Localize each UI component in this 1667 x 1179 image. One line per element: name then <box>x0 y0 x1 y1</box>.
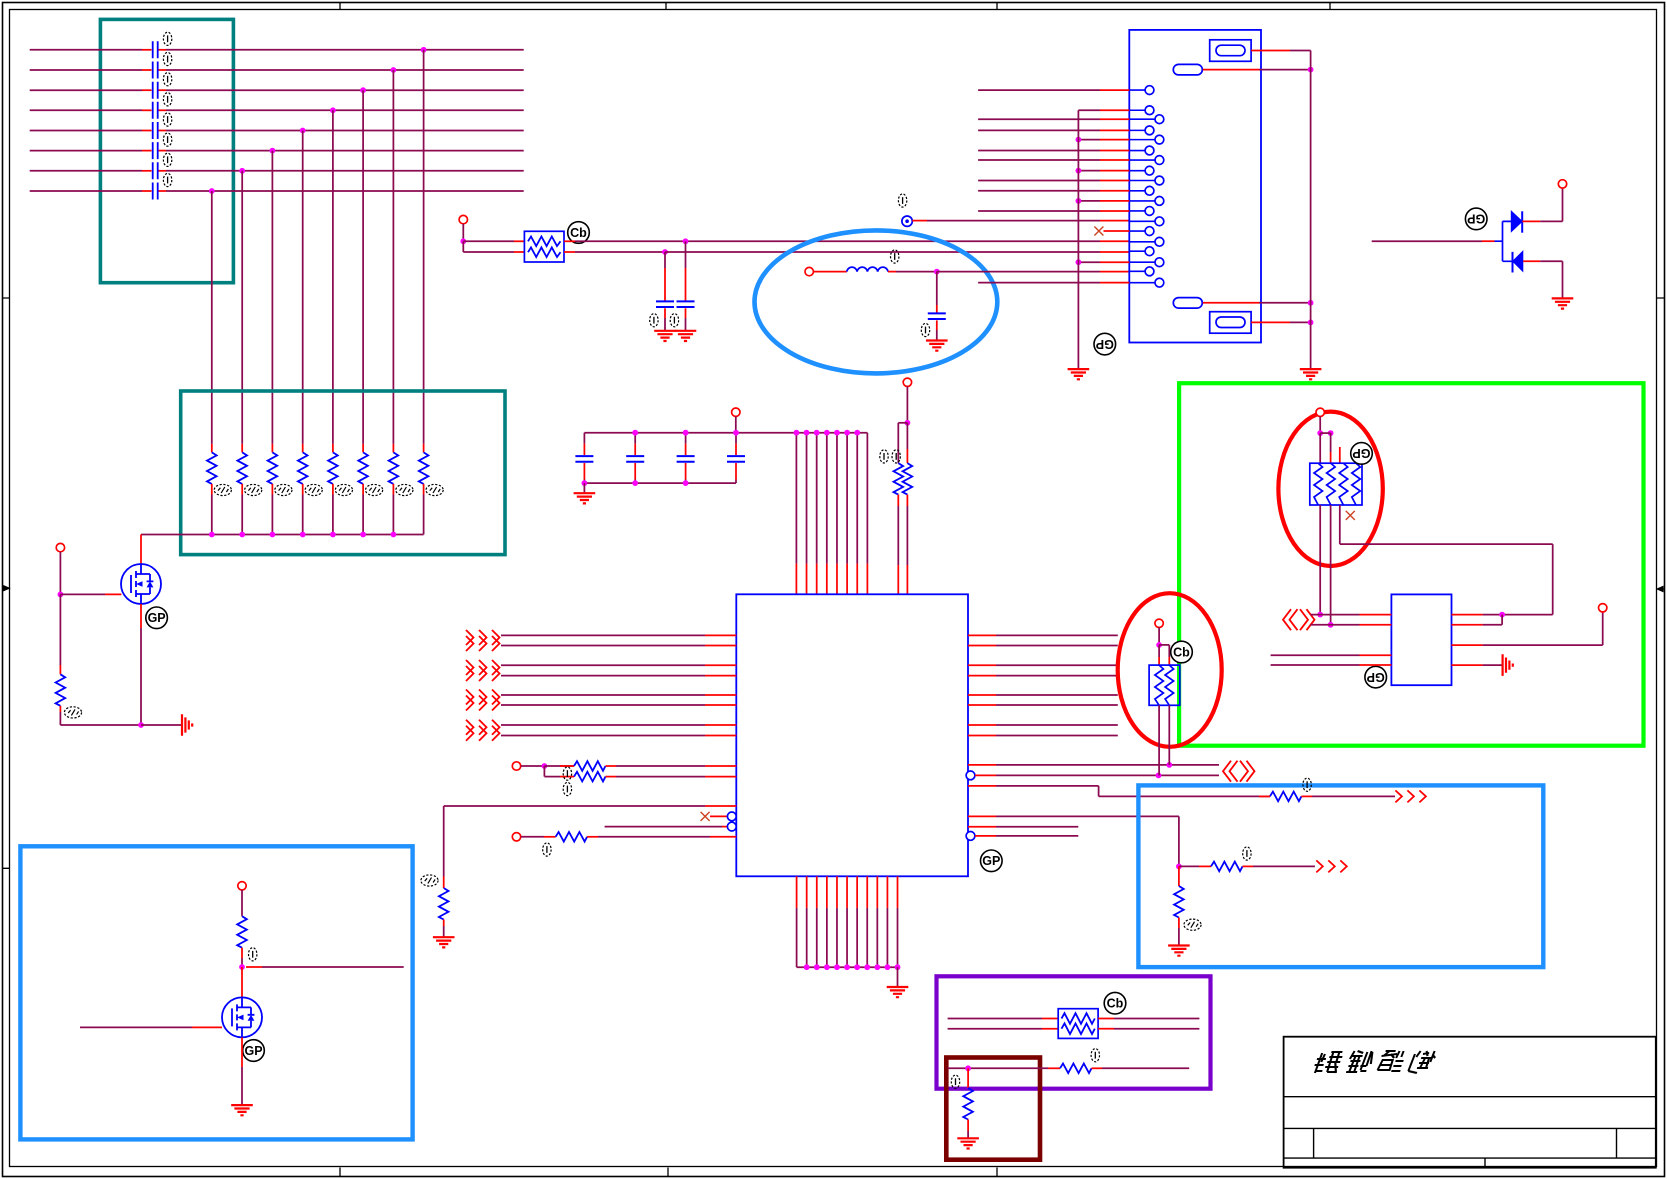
svg-text:Cb: Cb <box>1107 997 1124 1011</box>
capacitor C4 <box>153 102 158 119</box>
junction node top bus bundle <box>834 430 840 436</box>
wire vertical drop col 2 <box>241 171 243 444</box>
junction node bottom bus <box>864 964 870 970</box>
transistor Q1 (N-MOSFET) <box>121 564 161 604</box>
ground (R18) <box>1168 946 1190 956</box>
wire RN2 out 2 <box>1168 705 1170 765</box>
annotation ellipse (blue) EMI filter <box>755 230 998 373</box>
annotation ellipse (red) pack area <box>1278 412 1382 566</box>
connector pin 6 <box>1129 146 1154 155</box>
wire U2 out row1 <box>1452 614 1553 616</box>
reference label Cb (RP1) <box>568 222 590 244</box>
junction node top bus bundle <box>794 430 800 436</box>
svg-text:GP: GP <box>982 854 1000 868</box>
junction node top bus bundle <box>844 430 850 436</box>
wire U1 bottom bundle 4 <box>826 876 828 967</box>
wire long row corner <box>443 806 445 877</box>
mount pad frame bottom <box>1210 312 1251 334</box>
wire vertical drop col 3 <box>271 151 273 444</box>
junction node row 8 <box>209 188 215 194</box>
wire vertical drop col 6 <box>362 90 364 444</box>
annotation box (green) <box>1179 383 1643 746</box>
wire to second resistor <box>898 423 907 463</box>
reference label Cb (RP2) <box>1104 992 1126 1014</box>
designator label C15 <box>650 314 658 327</box>
wire U2 in row1 <box>1311 614 1392 616</box>
capacitor C11 (decoupling) <box>575 433 593 483</box>
connector pin 8 <box>1129 166 1154 175</box>
wire U1 bottom bundle 2 <box>806 876 808 967</box>
wire branch down <box>544 766 560 777</box>
wire IC top bundle 5 <box>836 433 838 595</box>
wire decoupling top bus <box>584 432 867 434</box>
wire IC top bundle 7 <box>856 433 858 595</box>
shield tab bottom <box>1173 298 1202 309</box>
wire connector net (long) <box>978 190 1129 192</box>
wire vertical drop col 7 <box>392 70 394 444</box>
pin circle U1 right 1 <box>966 771 975 780</box>
junction node bottom bus <box>895 964 901 970</box>
connector pin 12 <box>1129 207 1154 216</box>
wire net row 3 <box>30 89 524 91</box>
wire TP1 to pin <box>912 220 1129 222</box>
wire U2 ground row <box>1452 664 1502 666</box>
wire pbox row2 stub <box>1042 1028 1058 1030</box>
designator label R1 <box>214 484 231 495</box>
resistor R9 (gate pulldown) <box>56 665 66 725</box>
wire vertical drop col 4 <box>302 131 304 444</box>
wire RN1 out 1 <box>1319 505 1321 615</box>
capacitor C17 <box>928 272 946 340</box>
wire pulldown resistor top <box>59 594 61 665</box>
wire ground stem <box>583 483 585 493</box>
wire to junction <box>521 765 545 767</box>
wire inductor out <box>888 271 937 273</box>
filter resistor pack RP1 <box>524 231 564 262</box>
wire gate horizontal <box>60 593 121 595</box>
wire tab3 to vertical <box>1203 302 1311 304</box>
wire IC top bundle 2 <box>806 433 808 595</box>
junction node on bus <box>300 532 306 538</box>
capacitor C16 <box>677 241 695 330</box>
wire U2 out row2 <box>1452 615 1503 625</box>
resistor R11 <box>903 423 913 595</box>
wire pbox row2 left <box>948 1028 1042 1030</box>
chevrons out net4 <box>1316 860 1347 872</box>
ground (shield) <box>1300 369 1322 379</box>
wire IC top bundle 3 <box>816 433 818 595</box>
wire drain tap right <box>246 966 404 968</box>
wire connector net (long) <box>978 129 1129 131</box>
wire IC top bundle 1 <box>795 433 797 595</box>
reference label Cb (RN2) <box>1171 641 1193 663</box>
junction node pack 1 <box>1317 430 1323 436</box>
junction node filter <box>460 238 466 244</box>
ground (connector bus) <box>1068 369 1090 379</box>
wire pbox row1 right <box>1098 1018 1199 1020</box>
designator label C17 <box>921 323 929 336</box>
ground (R15) <box>433 937 455 947</box>
wire connector net (long) <box>978 210 1129 212</box>
wire connector bus top row <box>1078 109 1129 111</box>
wire to inductor <box>814 271 847 273</box>
annotation box (blue) power switch <box>20 846 412 1139</box>
wire pbox row1 stub <box>1042 1018 1058 1020</box>
resistor R13 <box>560 772 736 782</box>
ground (C16) <box>675 331 697 341</box>
IC U1 (main controller) <box>736 594 968 876</box>
annotation box (blue) output nets <box>1138 785 1543 967</box>
wire U1 bottom bundle 7 <box>856 876 858 967</box>
wire pbox row1 left <box>948 1018 1042 1020</box>
wire net3 bend <box>968 786 1270 797</box>
junction node bottom bus <box>874 964 880 970</box>
junction node cap row B <box>662 249 668 255</box>
designator label C6 <box>163 133 171 146</box>
junction node on bus <box>239 532 245 538</box>
svg-text:GP: GP <box>1367 670 1385 684</box>
designator label R15 <box>421 875 438 886</box>
annotation box (teal) around capacitor bank <box>100 19 233 282</box>
terminal pin (antenna) <box>805 267 813 275</box>
wire U2 out row3 to terminal <box>1452 612 1603 645</box>
designator label C4 <box>163 93 171 106</box>
wire pack feed 2 <box>1320 433 1330 463</box>
junction node net1 <box>1166 762 1172 768</box>
connector pin 19 <box>1129 278 1164 287</box>
designator label R21 <box>249 948 257 961</box>
svg-text:GP: GP <box>244 1044 262 1058</box>
wire bottom ground stem <box>897 967 899 986</box>
no-connect X mark <box>701 812 710 821</box>
wire RN2 feed 2 <box>1159 645 1169 665</box>
wire connector ground bus <box>1077 110 1079 368</box>
wire row net2 <box>975 774 1219 776</box>
designator label R13 <box>563 782 571 795</box>
wire net row 1 <box>30 49 524 51</box>
reference label RN1 <box>1351 443 1373 465</box>
wire connector net (long) <box>978 89 1129 91</box>
junction node shield top <box>1308 67 1314 73</box>
junction node top bus bundle <box>824 430 830 436</box>
IC U2 (regulator) <box>1391 594 1451 685</box>
wire U1 right pin row 8 <box>968 735 1118 737</box>
bus entry chevrons group 4 <box>466 720 500 741</box>
wire pad1 to vertical <box>1251 50 1311 52</box>
wire shield vertical <box>1310 51 1312 369</box>
junction node bottom bus <box>683 480 689 486</box>
wire drain to Q2 <box>241 967 243 997</box>
resistor R16 <box>1259 792 1395 802</box>
ground (right-facing) <box>182 714 192 736</box>
junction node row 2 <box>391 67 397 73</box>
wire U1 right pin row 4 <box>968 675 1118 677</box>
wire tab to vertical <box>1203 69 1311 71</box>
wire pack top <box>1319 417 1321 434</box>
wire source/ground rail <box>60 724 141 726</box>
wire filter row A left <box>463 240 524 242</box>
bus entry chevrons group 2 <box>466 660 500 681</box>
designator label R11 <box>892 450 900 463</box>
wire IC top bundle 8 <box>866 433 868 595</box>
terminal pin (row A) <box>512 762 520 770</box>
designator label C5 <box>163 113 171 126</box>
ground (R20) <box>957 1138 979 1148</box>
ground (decoupling bus) <box>574 493 596 503</box>
wire connector net (long) <box>978 118 1129 120</box>
wire resistor bank ground bus <box>141 534 424 536</box>
wire net row 7 <box>30 170 524 172</box>
wire U1 bottom bundle 3 <box>816 876 818 967</box>
wire net5 <box>968 826 1078 828</box>
wire U1 right pin row 5 <box>968 694 1118 696</box>
wire net row 6 <box>30 150 524 152</box>
svg-text:GP: GP <box>1352 446 1370 460</box>
wire net4 <box>968 816 1179 866</box>
connector pin 17 <box>1129 258 1164 267</box>
resistor R20 (pulldown) <box>963 1068 973 1137</box>
capacitor C7 <box>153 162 158 179</box>
junction node net2 <box>1156 773 1162 779</box>
annotation ellipse (red) termination <box>1118 593 1222 747</box>
capacitor C13 (decoupling) <box>677 433 695 483</box>
connector pin 18 <box>1129 267 1154 276</box>
junction node row 4 <box>330 107 336 113</box>
wire filter row A right <box>564 240 1129 242</box>
chevrons out net3 <box>1395 790 1426 802</box>
designator label R18 <box>1184 919 1201 930</box>
wire connector net (long) <box>978 150 1129 152</box>
wire drain from bus <box>140 535 142 565</box>
junction node L1/C17 <box>934 269 940 275</box>
connector J1 body <box>1129 30 1261 343</box>
junction node on bus <box>391 532 397 538</box>
wire Q2 drain net <box>241 890 243 916</box>
wire RN2 top <box>1158 628 1160 645</box>
designator label R19 <box>1091 1049 1099 1062</box>
wire U1 right pin row 7 <box>968 724 1118 726</box>
wire decoupling bottom bus <box>584 482 736 484</box>
wire pbox row3 left <box>948 1067 1048 1069</box>
wire gate net vertical <box>59 552 61 595</box>
junction node bottom bus <box>632 480 638 486</box>
connector pin 1 <box>1129 86 1154 95</box>
wire U1 right pin row 1 <box>968 634 1118 636</box>
designator label R3 <box>275 484 292 495</box>
wire U1 left pin row 5 <box>501 694 736 696</box>
designator label R5 <box>335 484 352 495</box>
capacitor C3 <box>153 82 158 99</box>
junction node RN2 <box>1156 642 1162 648</box>
junction node row A <box>542 763 548 769</box>
designator label R14 <box>543 843 551 856</box>
wire pack feed 1 <box>1319 433 1321 463</box>
junction node top bus <box>683 430 689 436</box>
junction node bus tap <box>1076 168 1082 174</box>
wire pad2 to vertical <box>1251 321 1311 323</box>
wire U1 left pin row 6 <box>501 704 736 706</box>
wire diode common <box>1495 221 1514 261</box>
designator label R4 <box>305 484 322 495</box>
wire to ground <box>141 724 181 726</box>
wire U1 right pin row 2 <box>968 645 1118 647</box>
designator label R10 <box>880 450 888 463</box>
shield tab top <box>1173 64 1202 75</box>
resistor pack RN1 <box>1310 463 1362 505</box>
wire Q2 gate <box>80 1026 222 1028</box>
designator label R2 <box>245 484 262 495</box>
reference label U1 GP <box>981 850 1003 872</box>
resistor R7 <box>389 444 399 535</box>
wire D1 to terminal <box>1522 188 1562 221</box>
wire diode input row <box>1372 240 1495 242</box>
wire connector net (long) <box>978 179 1129 181</box>
testpoint TP1 <box>902 216 912 226</box>
junction node RN1-row1 <box>1317 612 1323 618</box>
junction node bottom bus <box>814 964 820 970</box>
resistor R4 <box>298 444 308 535</box>
designator label R6 <box>366 484 383 495</box>
mount pad top <box>1216 45 1245 56</box>
resistor R8 <box>419 444 429 535</box>
junction node net4 <box>1176 864 1182 870</box>
no-connect X (pin) <box>1094 227 1103 236</box>
resistor pack RP2 <box>1058 1009 1098 1039</box>
capacitor C1 <box>153 41 158 58</box>
wire filter row B left <box>463 241 524 252</box>
mount pad frame top <box>1210 40 1251 62</box>
junction node Q2 drain <box>239 964 245 970</box>
capacitor C8 <box>153 183 158 200</box>
title text 緯創資通 <box>1313 1051 1437 1073</box>
designator label C8 <box>163 173 171 186</box>
terminal pin (U2) <box>1599 604 1607 612</box>
annotation box (teal) around resistor bank <box>181 391 505 555</box>
wire filter input <box>462 224 464 242</box>
junction node on bus <box>360 532 366 538</box>
junction node row A tap <box>683 238 689 244</box>
wire bus tap <box>1078 261 1129 263</box>
svg-text:Cb: Cb <box>570 226 587 240</box>
designator label R12 <box>563 767 571 780</box>
junction node on bus <box>330 532 336 538</box>
wire U1 bottom bundle 8 <box>866 876 868 967</box>
capacitor C2 <box>153 62 158 79</box>
wire U1 bottom bundle 6 <box>846 876 848 967</box>
wire bus tap <box>1078 200 1129 202</box>
wire U1 bottom bundle 10 <box>886 876 888 967</box>
ground (C17) <box>926 341 948 351</box>
resistor R15 <box>439 877 449 937</box>
wire net row 2 <box>30 69 524 71</box>
wire U2 in row3 <box>1271 654 1392 656</box>
wire net row 4 <box>30 109 524 111</box>
resistor R17 <box>1179 862 1315 872</box>
wire connector net (long) <box>978 159 1129 161</box>
wire vertical drop col 8 <box>423 50 425 444</box>
junction node row 5 <box>300 128 306 134</box>
diode D1 (up) <box>1511 211 1522 232</box>
wire RN1 out 3 loop <box>1340 505 1553 615</box>
ground (Q2) <box>231 1105 253 1115</box>
wire U1 right pin row 3 <box>968 664 1118 666</box>
junction node top bus <box>632 430 638 436</box>
junction node row 1 <box>421 47 427 53</box>
junction node top bus bundle <box>814 430 820 436</box>
wire pull-up vertical <box>906 387 908 423</box>
wire U1 left pin row 3 <box>501 664 736 666</box>
reference label Q2 GP <box>243 1040 265 1062</box>
wire pbox row2 right <box>1098 1028 1199 1030</box>
ground (U1 bottom) <box>887 987 909 997</box>
wire Q2 source <box>241 1037 243 1104</box>
terminal pin (Q2 drain net) <box>238 882 246 890</box>
reference label D1/D2 <box>1465 208 1487 230</box>
reference label GP (connector) <box>1094 333 1116 355</box>
junction node source-ground <box>138 722 144 728</box>
resistor R10 <box>894 463 904 594</box>
wire U1 left pin row 1 <box>501 634 736 636</box>
junction node top bus bundle <box>854 430 860 436</box>
wire VDD stub <box>735 416 737 432</box>
terminal pin (pack top) <box>1316 408 1324 416</box>
designator label C7 <box>163 153 171 166</box>
resistor R21 <box>237 916 247 967</box>
junction node gate net <box>58 592 64 598</box>
wire U1 bottom bundle 11 <box>897 876 899 967</box>
wire IC top bundle 6 <box>846 433 848 595</box>
wire connector net (long) <box>978 282 1129 284</box>
resistor R19 <box>1048 1064 1189 1074</box>
terminal pin (RN2) <box>1155 619 1163 627</box>
wire U1 bottom bundle 1 <box>796 876 798 967</box>
junction node bottom bus <box>804 964 810 970</box>
capacitor C12 (decoupling) <box>626 433 644 483</box>
bus entry chevrons group 1 <box>466 630 500 651</box>
wire row to pin <box>605 826 729 828</box>
wire U1 left pin row 7 <box>501 724 736 726</box>
ground (U2, right-facing) <box>1503 654 1513 676</box>
designator label C2 <box>163 52 171 65</box>
no-connect X (RN1) <box>1346 511 1355 520</box>
wire U2 in row4 <box>1271 664 1392 666</box>
designator label C3 <box>163 73 171 86</box>
wire U1 right pin row 6 <box>968 704 1118 706</box>
bus chevrons net1/net2 <box>1223 761 1255 782</box>
resistor R3 <box>268 444 278 535</box>
junction node U2 row1 <box>1499 612 1505 618</box>
wire U1 bottom bundle 5 <box>836 876 838 967</box>
junction node bottom bus <box>844 964 850 970</box>
wire bus tap <box>1078 170 1129 172</box>
bus entry chevrons group 3 <box>466 690 500 711</box>
connector pin 9 <box>1129 176 1164 185</box>
pin circle U1 left 1 <box>727 812 736 821</box>
junction node row3 <box>965 1065 971 1071</box>
connector pin 7 <box>1129 156 1164 165</box>
junction node bottom bus <box>834 964 840 970</box>
designator label R17 <box>1243 847 1251 860</box>
svg-text:GP: GP <box>148 611 166 625</box>
terminal pin (filter input) <box>459 215 467 223</box>
connector pin 2 <box>1129 106 1154 115</box>
designator label C1 <box>163 32 171 45</box>
connector pin 15 <box>1129 237 1164 246</box>
junction node shield 4 <box>1308 320 1314 326</box>
connector pin 16 <box>1129 247 1154 256</box>
wire row net1 <box>968 764 1219 766</box>
junction node top bus bundle <box>804 430 810 436</box>
